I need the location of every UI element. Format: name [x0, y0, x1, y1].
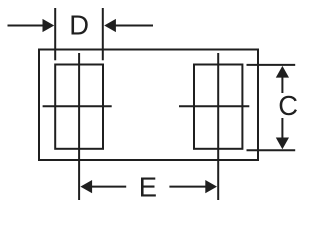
- right pad vertical centerline: [217, 53, 219, 200]
- dimension C upper arrow line: [281, 70, 283, 93]
- dimension C up arrowhead: [276, 66, 289, 78]
- svg-text:C: C: [278, 90, 297, 121]
- svg-text:E: E: [139, 172, 157, 200]
- dimension D left arrowhead: [43, 19, 55, 32]
- dimension C down arrowhead: [276, 138, 289, 150]
- left pad vertical centerline: [78, 53, 80, 200]
- dimension E left arrow line: [92, 186, 126, 188]
- svg-text:D: D: [69, 10, 89, 41]
- body outline rectangle: [39, 50, 258, 161]
- dimension C top extension line: [247, 64, 296, 66]
- dimension D left arrow line: [8, 25, 44, 27]
- dimension E right arrowhead: [205, 180, 217, 193]
- dimension C bottom extension line: [247, 149, 296, 151]
- dimension D right arrow line: [116, 25, 154, 27]
- dimension E left arrowhead: [80, 180, 92, 193]
- dimension C lower arrow line: [281, 118, 283, 143]
- right pad rectangle: [194, 65, 242, 149]
- left pad rectangle: [55, 65, 103, 149]
- dimension D right arrowhead: [104, 19, 116, 32]
- dimension D right extension line: [102, 8, 104, 60]
- dimension D left extension line: [54, 8, 56, 60]
- left pad horizontal centerline: [43, 105, 112, 107]
- dimension E right arrow line: [169, 186, 206, 188]
- right pad horizontal centerline: [179, 105, 249, 107]
